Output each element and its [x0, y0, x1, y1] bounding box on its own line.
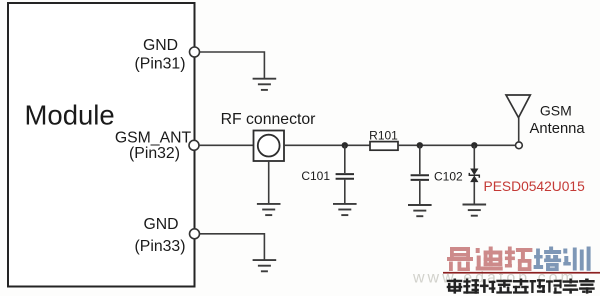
ground GND2: [257, 204, 281, 215]
node junction at C102: [417, 142, 423, 148]
wire RF connector to R101: [284, 144, 370, 146]
pin GND (Pin31) label: [135, 37, 186, 73]
svg-text:(Pin32): (Pin32): [129, 145, 180, 162]
watermark logo char 2 (pink): [476, 247, 503, 271]
pin GSM_ANT (Pin32) label: [115, 130, 192, 162]
wire Pin31 to ground: [200, 52, 265, 78]
watermark logo underline: [443, 272, 600, 274]
R101 label: [369, 128, 398, 142]
node junction at C101: [342, 142, 348, 148]
wire Pin32 to RF connector: [199, 144, 254, 146]
watermark logo char 4 (blue): [534, 247, 562, 272]
svg-text:Antenna: Antenna: [530, 121, 586, 137]
watermark logo char 3 (pink): [505, 247, 533, 272]
antenna terminal node: [516, 142, 523, 149]
svg-text:RF connector: RF connector: [221, 111, 316, 128]
ground GND4: [408, 205, 432, 216]
ground GND1: [253, 79, 277, 90]
watermark logo char 5 (blue): [563, 247, 590, 271]
svg-text:PESD0542U015: PESD0542U015: [484, 179, 586, 194]
RF connector label: [221, 111, 316, 128]
TVS diode D1 PESD0542U015: [469, 145, 479, 204]
resistor R101: [370, 142, 398, 151]
svg-text:GND: GND: [143, 216, 178, 233]
svg-text:C102: C102: [434, 170, 463, 184]
capacitor C101: [336, 145, 354, 203]
C101 label: [301, 169, 330, 183]
D1 label PESD0542U015: [484, 179, 586, 194]
antenna ANT1: [506, 95, 530, 142]
watermark slogan chars (dark): [447, 279, 594, 294]
module label: [25, 99, 115, 130]
watermark logo char 1 (pink): [447, 247, 473, 271]
watermark www url text: [412, 270, 577, 287]
pin terminal Pin32: [189, 140, 199, 150]
wire R101 to antenna: [398, 144, 516, 146]
svg-text:R101: R101: [369, 128, 398, 142]
ground GND3: [333, 204, 357, 215]
svg-text:(Pin31): (Pin31): [135, 56, 186, 73]
pin terminal Pin33: [190, 229, 200, 239]
pin terminal Pin31: [190, 47, 200, 57]
svg-text:C101: C101: [301, 169, 330, 183]
pin GND (Pin33) label: [135, 216, 186, 255]
ground GND5: [463, 205, 487, 216]
GSM Antenna label: [530, 103, 586, 138]
node junction at TVS diode: [471, 142, 477, 148]
svg-text:GSM: GSM: [540, 103, 572, 119]
C102 label: [434, 170, 463, 184]
module block U1: [8, 3, 195, 287]
capacitor C102: [411, 145, 429, 204]
wire Pin33 to ground: [200, 234, 265, 260]
ground GND6: [253, 260, 277, 271]
svg-text:GND: GND: [143, 37, 178, 54]
wire RF connector to ground: [268, 161, 270, 204]
svg-text:(Pin33): (Pin33): [135, 238, 186, 255]
RF connector J1: [254, 131, 285, 162]
svg-text:Module: Module: [25, 99, 115, 130]
